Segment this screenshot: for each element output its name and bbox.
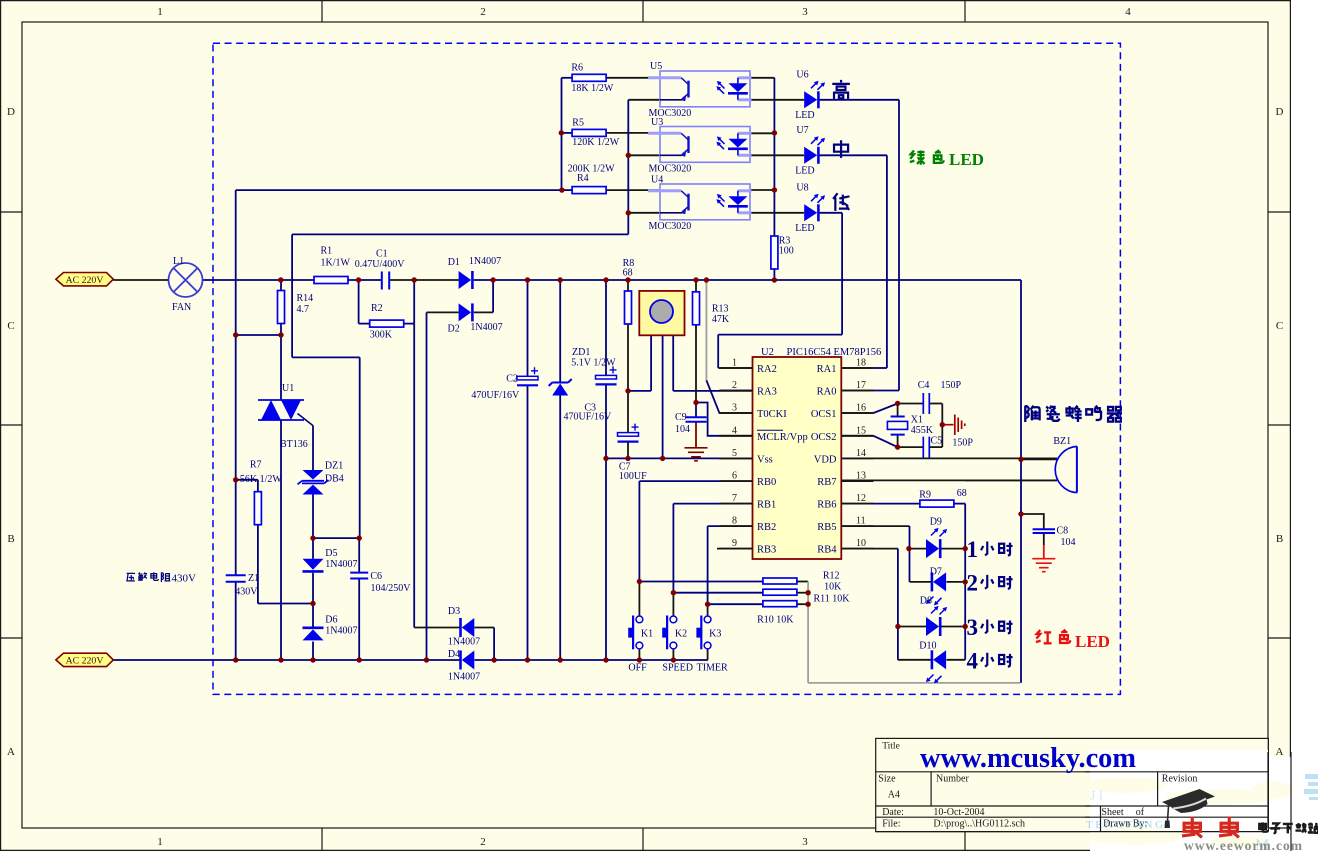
svg-text:104/250V: 104/250V <box>371 583 412 594</box>
wire: opto output column to R3 <box>750 78 774 280</box>
text ceramic buzzer label <box>1025 406 1122 422</box>
svg-text:K1: K1 <box>641 629 653 640</box>
svg-text:2: 2 <box>732 380 737 391</box>
svg-text:11: 11 <box>856 516 866 527</box>
svg-text:D10: D10 <box>919 641 936 652</box>
wire: pin9 stub <box>717 548 753 550</box>
svg-text:10-Oct-2004: 10-Oct-2004 <box>933 807 984 818</box>
junction dots: LED matrix <box>895 457 1024 630</box>
svg-text:OCS1: OCS1 <box>811 409 837 420</box>
svg-text:R2: R2 <box>371 303 383 314</box>
svg-text:K3: K3 <box>709 629 721 640</box>
wire: buzzer feeds <box>965 459 1057 480</box>
wire: C8 branch <box>1021 514 1044 559</box>
svg-text:C: C <box>1276 320 1283 332</box>
junction dots: middle <box>603 388 945 461</box>
svg-text:RB1: RB1 <box>757 500 776 511</box>
wire: K switch legs <box>639 582 707 661</box>
switch K3 <box>696 616 728 674</box>
svg-text:RB3: RB3 <box>757 545 776 556</box>
junction dots: live rail <box>278 277 777 282</box>
watermark ghost text <box>1086 774 1318 851</box>
wire: C6 branch <box>313 538 359 660</box>
svg-text:D8: D8 <box>920 596 932 607</box>
svg-text:120K 1/2W: 120K 1/2W <box>572 137 620 148</box>
svg-text:R5: R5 <box>572 118 584 129</box>
zener ZD1 <box>549 347 616 396</box>
wire: R2/D3 column <box>414 324 460 628</box>
svg-text:1N4007: 1N4007 <box>469 256 501 267</box>
svg-text:7: 7 <box>732 493 737 504</box>
svg-text:56K 1/2W: 56K 1/2W <box>240 474 283 485</box>
resistor R1 <box>314 246 351 284</box>
svg-text:Drawn By:: Drawn By: <box>1103 819 1147 830</box>
diode D6 <box>303 615 358 641</box>
svg-text:LED: LED <box>949 150 984 169</box>
svg-text:D1: D1 <box>448 257 460 268</box>
svg-text:C: C <box>7 320 14 332</box>
optocoupler U4 MOC3020 <box>648 175 752 233</box>
resistor R6 <box>571 63 614 95</box>
junction dots: keys and pullups <box>637 579 811 607</box>
wire: sense divider gray drop to pin3 <box>706 280 752 413</box>
svg-text:Vss: Vss <box>757 454 773 465</box>
LED D8 <box>920 596 947 637</box>
svg-text:T0CKI: T0CKI <box>757 409 787 420</box>
svg-text:2: 2 <box>480 836 486 848</box>
svg-text:1: 1 <box>967 537 979 562</box>
svg-text:D: D <box>1276 106 1284 118</box>
resistor R3 <box>771 236 794 270</box>
capacitor C3 <box>564 366 617 422</box>
svg-text:17: 17 <box>856 380 866 391</box>
svg-text:6: 6 <box>732 471 737 482</box>
svg-text:D: D <box>7 106 15 118</box>
svg-text:C2: C2 <box>506 374 518 385</box>
capacitor C7 <box>618 424 648 482</box>
svg-text:8: 8 <box>732 516 737 527</box>
svg-text:C1: C1 <box>376 249 388 260</box>
optocoupler U5 MOC3020 <box>648 61 752 119</box>
svg-text:AC 220V: AC 220V <box>66 656 104 667</box>
svg-text:RA0: RA0 <box>817 387 837 398</box>
svg-text:5: 5 <box>732 448 737 459</box>
wire: R7 branch <box>236 480 313 604</box>
svg-text:B: B <box>7 533 14 545</box>
svg-text:www.mcusky.com: www.mcusky.com <box>920 742 1136 774</box>
port AC 220V (bottom) <box>56 653 113 667</box>
wire: pin8 to K3 <box>708 526 753 604</box>
svg-text:100UF: 100UF <box>619 471 647 482</box>
svg-text:RB4: RB4 <box>817 545 837 556</box>
dashed boundary box <box>213 43 1120 694</box>
wire: R2 branch <box>359 280 415 324</box>
svg-text:C6: C6 <box>370 571 382 582</box>
wire: pin18 stub <box>841 367 873 369</box>
wire: AC live rail (top) <box>113 279 1021 281</box>
resistor R13 <box>693 292 730 325</box>
svg-text:K2: K2 <box>675 629 687 640</box>
svg-text:DZ1: DZ1 <box>325 461 343 472</box>
title block <box>876 739 1268 831</box>
diode D4 <box>448 649 480 683</box>
text zhong <box>834 140 848 158</box>
svg-text:9: 9 <box>732 538 737 549</box>
svg-text:FAN: FAN <box>172 302 191 313</box>
svg-text:LED: LED <box>795 223 814 234</box>
wire: LED rows right side <box>941 549 965 660</box>
wire: R13 column to pin4 <box>696 280 753 436</box>
wire: pin16/15 to resonator <box>841 404 942 448</box>
svg-text:1: 1 <box>157 836 163 848</box>
svg-text:3: 3 <box>967 615 979 640</box>
svg-text:R12: R12 <box>823 571 840 582</box>
capacitor C4 <box>918 380 962 414</box>
wire: R11 row <box>673 592 808 594</box>
svg-text:13: 13 <box>856 471 866 482</box>
resistor R10 <box>757 601 797 626</box>
svg-text:18K 1/2W: 18K 1/2W <box>571 83 614 94</box>
svg-text:RB2: RB2 <box>757 522 776 533</box>
svg-text:Sheet: Sheet <box>1101 807 1123 818</box>
svg-text:1N4007: 1N4007 <box>470 322 502 333</box>
LED D9 <box>926 517 947 559</box>
svg-text:U5: U5 <box>650 61 662 72</box>
wire: pin11 to D9/D7 anodes <box>841 526 931 582</box>
svg-text:1: 1 <box>732 358 737 369</box>
svg-text:Title: Title <box>882 742 900 752</box>
text green LED label <box>910 150 984 169</box>
resistor R4 <box>568 164 616 194</box>
LED U8 <box>795 183 825 234</box>
svg-text:455K: 455K <box>911 425 934 436</box>
svg-text:D9: D9 <box>930 517 942 528</box>
varistor Z1 <box>226 573 259 598</box>
svg-text:OCS2: OCS2 <box>811 432 837 443</box>
title block lines over watermark <box>876 752 1291 851</box>
svg-text:200K 1/2W: 200K 1/2W <box>568 164 616 175</box>
svg-text:47K: 47K <box>712 314 730 325</box>
svg-text:R9: R9 <box>919 490 931 501</box>
svg-text:0.47U/400V: 0.47U/400V <box>355 259 406 270</box>
text gao <box>832 80 850 99</box>
svg-text:B: B <box>1276 533 1283 545</box>
svg-text:AC 220V: AC 220V <box>66 275 104 286</box>
svg-text:C9: C9 <box>675 412 687 423</box>
svg-text:12: 12 <box>856 493 866 504</box>
watermark graduation cap <box>1162 789 1215 828</box>
resistor R5 <box>572 118 620 149</box>
capacitor C9 <box>675 412 707 435</box>
svg-text:BZ1: BZ1 <box>1053 436 1071 447</box>
svg-text:J l: J l <box>1090 789 1103 804</box>
text hour labels <box>967 537 1013 673</box>
LED U7 <box>795 125 825 176</box>
wire: R14 branch <box>236 280 281 335</box>
svg-text:150P: 150P <box>952 438 973 449</box>
svg-text:R10 10K: R10 10K <box>757 615 794 626</box>
svg-text:C5: C5 <box>931 436 943 447</box>
junction dots: neutral rail <box>233 657 676 662</box>
wire: C9 branch <box>695 403 697 448</box>
svg-text:RA3: RA3 <box>757 387 777 398</box>
svg-text:U8: U8 <box>796 183 808 194</box>
svg-text:D6: D6 <box>325 615 337 626</box>
svg-text:D3: D3 <box>448 606 460 617</box>
wire: U4 to LED U8 to pin1 <box>718 213 842 368</box>
svg-text:10K: 10K <box>824 582 842 593</box>
wire: pin6 to K1 <box>639 481 752 581</box>
svg-text:BT136: BT136 <box>280 439 308 450</box>
svg-text:R11 10K: R11 10K <box>814 594 851 605</box>
wire: triac gate to DZ1/D5/D6 column <box>312 426 314 660</box>
LED D10 <box>919 641 946 684</box>
svg-text:LED: LED <box>1075 632 1110 651</box>
wire: D3 anode drop <box>474 628 494 661</box>
switch K1 <box>628 616 653 674</box>
wire: R12 row <box>639 581 808 583</box>
capacitor C2 <box>471 367 538 401</box>
resistor R11 <box>763 589 850 604</box>
svg-text:1N4007: 1N4007 <box>325 559 357 570</box>
diode D1 <box>448 256 501 289</box>
svg-text:MOC3020: MOC3020 <box>649 164 692 175</box>
svg-text:LED: LED <box>795 110 814 121</box>
svg-text:VDD: VDD <box>814 454 837 465</box>
IC U2 PIC16C54 <box>719 347 881 559</box>
buzzer BZ1 <box>1053 436 1077 493</box>
svg-text:C4: C4 <box>918 380 930 391</box>
wire: R6/R5/R4 left column + feed <box>236 78 562 660</box>
svg-text:DB4: DB4 <box>325 474 344 485</box>
svg-text:MOC3020: MOC3020 <box>649 221 692 232</box>
wire: pin2 stub <box>719 390 752 392</box>
capacitor C5 <box>923 436 973 458</box>
optocoupler U3 MOC3020 <box>648 117 752 175</box>
svg-text:1N4007: 1N4007 <box>325 626 357 637</box>
wire: pin17 stub <box>841 390 873 392</box>
diode D3 <box>448 606 480 648</box>
svg-text:Z1: Z1 <box>248 573 259 584</box>
wire: pin13 RB7 to buzzer <box>841 479 1057 481</box>
diac DZ1 DB4 <box>298 461 344 495</box>
svg-text:4: 4 <box>1125 6 1131 18</box>
svg-text:Size: Size <box>878 774 896 785</box>
svg-text:Number: Number <box>936 774 969 785</box>
svg-text:ZD1: ZD1 <box>572 347 590 358</box>
wire: pin14 VDD row <box>841 457 1057 459</box>
svg-text:C8: C8 <box>1057 526 1069 537</box>
wire: sensor pins <box>628 335 753 458</box>
svg-text:A: A <box>7 746 15 758</box>
svg-text:U4: U4 <box>651 175 663 186</box>
watermark site name <box>1259 822 1318 833</box>
svg-text:U7: U7 <box>796 125 808 136</box>
wire: VDD column right <box>1020 280 1022 683</box>
text varistor label <box>127 572 196 584</box>
svg-text:4.7: 4.7 <box>297 304 310 315</box>
svg-text:RB5: RB5 <box>817 522 836 533</box>
wire: pin7 to K2 <box>673 504 752 593</box>
wire: R4 row <box>562 189 660 191</box>
svg-text:430V: 430V <box>235 587 258 598</box>
signal ground (resonator) <box>945 415 965 436</box>
watermark background <box>1083 750 1318 851</box>
wire: D2 branch <box>427 280 494 660</box>
svg-text:U6: U6 <box>796 70 808 81</box>
svg-text:3: 3 <box>802 6 808 18</box>
svg-text:1K/1W: 1K/1W <box>321 258 351 269</box>
svg-text:150P: 150P <box>941 380 962 391</box>
wire: R5 row <box>561 132 660 134</box>
svg-text:D:\prog\..\HG0112.sch: D:\prog\..\HG0112.sch <box>933 819 1025 830</box>
wire: U3 to LED U7 to pin18 <box>750 155 887 368</box>
title block texts over watermark <box>1101 774 1197 830</box>
svg-text:470UF/16V: 470UF/16V <box>471 390 520 401</box>
wire: triac main column <box>280 335 282 660</box>
wire: R6 row <box>562 77 661 79</box>
svg-text:OFF: OFF <box>628 663 647 674</box>
svg-text:3: 3 <box>802 836 808 848</box>
svg-text:LED: LED <box>795 165 814 176</box>
svg-text:18: 18 <box>856 358 866 369</box>
svg-text:4: 4 <box>732 425 737 436</box>
svg-text:100: 100 <box>779 246 794 257</box>
resonator X1 455K <box>887 415 933 436</box>
svg-text:1N4007: 1N4007 <box>448 637 480 648</box>
wire: C2 column <box>527 280 529 660</box>
svg-text:Revision: Revision <box>1162 774 1198 785</box>
svg-text:A4: A4 <box>888 790 900 801</box>
svg-text:4: 4 <box>967 648 979 673</box>
ground (C9, maroon) <box>685 448 708 461</box>
svg-text:R13: R13 <box>712 304 729 315</box>
wire: C3 column <box>605 280 607 660</box>
LED U6 <box>795 70 825 121</box>
wire: opto cathode return column <box>292 100 660 538</box>
svg-text:D5: D5 <box>325 548 337 559</box>
svg-text:104: 104 <box>1061 537 1076 548</box>
svg-text:5.1V 1/2W: 5.1V 1/2W <box>571 358 616 369</box>
svg-text:D4: D4 <box>448 649 460 660</box>
wire: pin10 to D8/D10 anodes <box>841 549 931 660</box>
svg-text:U2: U2 <box>761 347 774 358</box>
svg-text:RB7: RB7 <box>817 477 836 488</box>
svg-text:D2: D2 <box>448 324 460 335</box>
svg-text:2: 2 <box>480 6 486 18</box>
triac U1 BT136 <box>258 383 313 450</box>
svg-text:68: 68 <box>957 488 967 499</box>
svg-text:R14: R14 <box>297 293 314 304</box>
svg-text:A: A <box>1276 746 1284 758</box>
svg-text:10: 10 <box>856 538 866 549</box>
svg-text:of: of <box>1136 807 1145 818</box>
LED D7 <box>926 567 946 606</box>
svg-text:R4: R4 <box>577 173 589 184</box>
svg-text:www.eeworm.com: www.eeworm.com <box>1184 838 1303 851</box>
wire: AC neutral rail (bottom) <box>113 659 708 661</box>
svg-text:RB0: RB0 <box>757 477 776 488</box>
svg-text:U3: U3 <box>651 117 663 128</box>
ground (C8, red) <box>1032 559 1055 572</box>
svg-text:1: 1 <box>157 6 163 18</box>
text di <box>833 193 849 211</box>
resistor R14 <box>278 291 314 324</box>
svg-text:68: 68 <box>623 268 633 279</box>
svg-text:R1: R1 <box>321 246 333 257</box>
wire: R8/C7 column <box>627 280 629 458</box>
resistor R7 <box>240 460 283 525</box>
wire: pull-up gray return <box>808 582 1020 683</box>
wire: ZD1 column <box>559 280 561 660</box>
svg-text:File:: File: <box>882 819 900 830</box>
svg-text:430V: 430V <box>172 573 197 585</box>
capacitor C6 <box>350 571 411 594</box>
svg-text:14: 14 <box>856 448 866 459</box>
svg-text:16: 16 <box>856 403 866 414</box>
wire: Vss rail <box>606 457 753 459</box>
switch K2 <box>662 616 693 674</box>
resistor R12 <box>763 571 842 593</box>
text red LED label <box>1036 630 1110 651</box>
svg-text:RA1: RA1 <box>817 364 837 375</box>
resistor R8 <box>623 258 635 324</box>
svg-text:SPEED: SPEED <box>662 663 693 674</box>
svg-text:2: 2 <box>967 570 979 595</box>
svg-text:1N4007: 1N4007 <box>448 672 480 683</box>
watermark chongchong logo text <box>1182 817 1239 838</box>
wire: pin12 to R9 <box>841 504 965 549</box>
wire: R10 row <box>708 603 809 605</box>
svg-text:MCLR/Vpp: MCLR/Vpp <box>757 432 808 443</box>
svg-text:RB6: RB6 <box>817 500 836 511</box>
junction dots: divider column <box>559 130 778 215</box>
capacitor C1 <box>355 249 406 290</box>
svg-text:TIMER: TIMER <box>697 663 728 674</box>
svg-text:RA2: RA2 <box>757 364 777 375</box>
svg-text:104: 104 <box>675 424 690 435</box>
svg-text:L1: L1 <box>173 256 184 267</box>
svg-text:U1: U1 <box>282 383 294 394</box>
svg-text:300K: 300K <box>370 330 393 341</box>
svg-text:15: 15 <box>856 425 866 436</box>
svg-text:D7: D7 <box>930 567 942 578</box>
resistor R9 <box>919 488 967 507</box>
svg-text:3: 3 <box>732 403 737 414</box>
diode D2 <box>448 303 503 334</box>
capacitor C8 <box>1033 526 1076 549</box>
wire: LED cathode column <box>964 549 966 660</box>
svg-text:Date:: Date: <box>882 807 904 818</box>
port AC 220V (top) <box>56 273 113 287</box>
lamp L1 FAN <box>169 256 203 313</box>
svg-text:R6: R6 <box>571 63 583 74</box>
svg-text:R7: R7 <box>250 460 262 471</box>
svg-text:PIC16C54 EM78P156: PIC16C54 EM78P156 <box>787 347 882 358</box>
svg-text:470UF/16V: 470UF/16V <box>564 412 613 423</box>
wire: pin5 stub <box>719 457 752 459</box>
thermal sensor block <box>639 291 684 335</box>
junction dots: left area <box>233 332 362 606</box>
wire: U5 to LED U6 to pin17 <box>750 100 899 391</box>
diode D5 <box>303 548 358 571</box>
resistor R2 <box>370 303 404 341</box>
